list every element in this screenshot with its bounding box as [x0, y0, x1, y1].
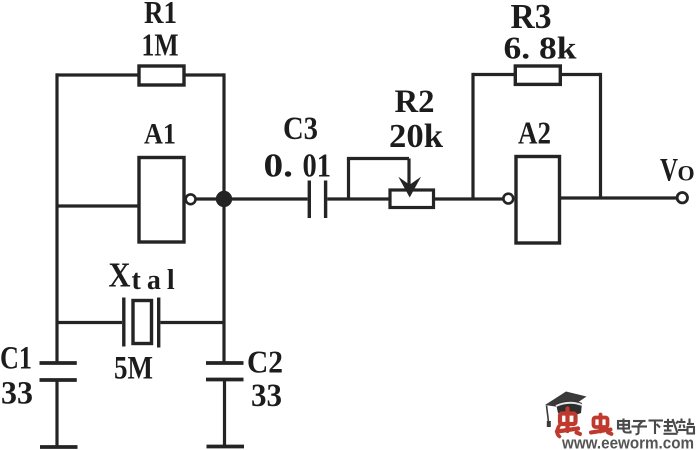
svg-text:1M: 1M — [142, 27, 179, 63]
svg-text:www.eeworm.com: www.eeworm.com — [561, 435, 694, 450]
wire R3 left leg — [471, 73, 474, 199]
wire A2 output to terminal — [560, 196, 678, 199]
output terminal Vo — [677, 193, 687, 203]
wire junction to C3 — [224, 197, 308, 200]
capacitor C1 — [40, 363, 77, 380]
inverter A1 — [139, 158, 184, 243]
svg-text:C1: C1 — [0, 341, 32, 377]
wire C2 to ground — [223, 380, 226, 447]
wire A1 output to junction — [196, 197, 224, 200]
inversion bubble A2 input — [503, 194, 513, 204]
svg-text:C3: C3 — [283, 111, 318, 147]
ground C1 — [40, 445, 78, 449]
capacitor C3 — [309, 181, 325, 219]
wire left rail vertical — [55, 73, 58, 361]
potentiometer R2 wiper — [347, 159, 409, 200]
wire C1 to ground — [55, 380, 58, 447]
resistor R1 — [139, 66, 184, 85]
svg-text:O: O — [678, 161, 695, 186]
svg-text:33: 33 — [1, 376, 33, 412]
svg-text:A1: A1 — [144, 118, 176, 151]
watermark logo text dianzixiazaizhan — [618, 419, 694, 435]
svg-text:20k: 20k — [389, 118, 443, 155]
ground C2 — [207, 445, 245, 449]
svg-text:5M: 5M — [114, 351, 153, 387]
wire R3 right leg — [599, 73, 602, 198]
inversion bubble A1 output — [186, 194, 196, 204]
wire R3 top right — [560, 73, 600, 76]
wire right rail vertical — [222, 73, 225, 361]
svg-text:X: X — [109, 256, 131, 295]
wire crystal right — [161, 321, 225, 324]
wire C3 to potentiometer R2 — [327, 197, 390, 200]
svg-text:A2: A2 — [518, 115, 551, 151]
wire top right from R1 to right rail — [184, 73, 225, 76]
crystal Xtal — [124, 298, 159, 348]
svg-text:33: 33 — [251, 378, 282, 414]
resistor R3 — [515, 66, 560, 84]
watermark logo text chongchong (red worms) — [557, 409, 612, 437]
wire R2 to A2 bubble — [434, 197, 504, 200]
junction node — [216, 191, 232, 207]
potentiometer R2 body — [390, 190, 434, 208]
svg-text:V: V — [660, 153, 678, 189]
svg-text:R1: R1 — [144, 0, 177, 30]
capacitor C2 — [206, 363, 244, 380]
inverter A2 — [516, 157, 560, 244]
potentiometer R2 wiper arrowhead — [398, 177, 421, 198]
wire crystal left — [57, 321, 122, 324]
svg-text:01: 01 — [303, 148, 332, 185]
svg-text:6. 8k: 6. 8k — [504, 30, 577, 66]
wire top left from left rail to R1 — [56, 73, 140, 76]
svg-text:0.: 0. — [264, 148, 294, 185]
svg-text:C2: C2 — [247, 344, 283, 380]
wire A1 input — [57, 204, 139, 207]
watermark logo graduation cap — [545, 392, 587, 428]
svg-text:R2: R2 — [395, 84, 435, 120]
svg-text:tal: tal — [132, 265, 181, 296]
wire R3 top left — [473, 73, 515, 76]
